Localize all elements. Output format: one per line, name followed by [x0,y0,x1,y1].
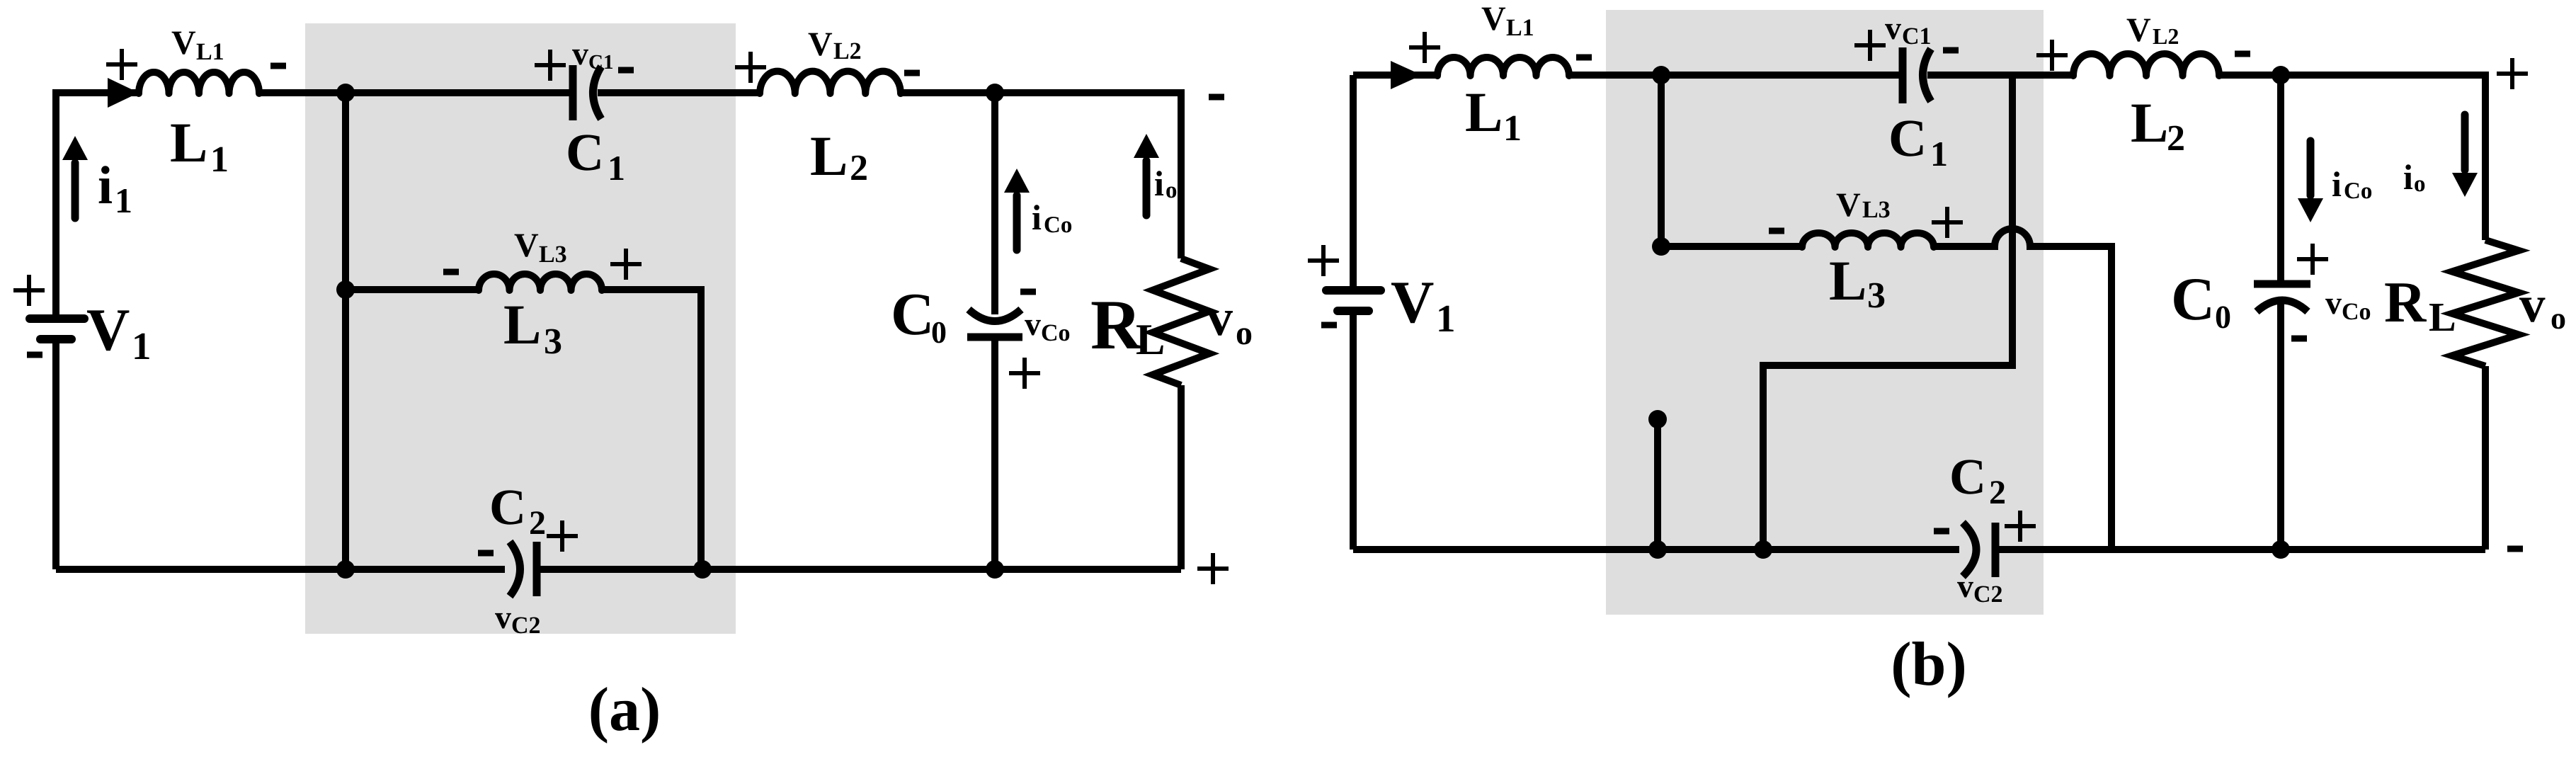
svg-text:v: v [1025,306,1041,342]
svg-text:L: L [810,125,848,188]
svg-text:i: i [98,156,113,215]
svg-text:o: o [1236,314,1253,352]
svg-text:L1: L1 [1506,15,1534,41]
svg-text:V: V [1391,269,1434,336]
svg-text:L3: L3 [539,241,567,268]
svg-text:1: 1 [1503,108,1522,149]
svg-text:C2: C2 [1973,581,2003,608]
svg-text:V: V [1481,0,1506,38]
svg-text:C: C [1888,109,1927,168]
svg-text:i: i [2403,157,2413,197]
svg-text:Co: Co [1041,320,1071,346]
svg-text:C1: C1 [588,51,613,74]
svg-text:(b): (b) [1891,630,1967,699]
svg-text:v: v [1885,10,1901,46]
svg-text:1: 1 [115,181,132,220]
svg-text:L: L [503,294,541,356]
svg-text:1: 1 [608,148,625,188]
svg-text:Co: Co [1044,212,1072,238]
svg-text:2: 2 [1989,474,2006,511]
svg-text:L2: L2 [833,38,862,64]
svg-text:o: o [2551,301,2566,336]
svg-text:L: L [1829,250,1867,312]
svg-text:L3: L3 [1862,197,1891,223]
svg-text:C2: C2 [511,613,541,639]
svg-text:3: 3 [1867,275,1886,316]
svg-text:2: 2 [529,504,546,542]
svg-text:0: 0 [2215,299,2231,335]
svg-text:v: v [2325,285,2342,321]
svg-text:C: C [1949,448,1986,505]
svg-text:1: 1 [1436,297,1456,340]
svg-text:(a): (a) [588,676,661,744]
svg-text:Co: Co [2342,299,2371,325]
svg-text:2: 2 [2167,118,2185,159]
svg-text:v: v [495,599,511,635]
svg-text:C1: C1 [1902,23,1932,50]
svg-text:0: 0 [931,315,947,350]
svg-text:V: V [2126,11,2151,49]
svg-text:1: 1 [1930,134,1948,173]
svg-text:1: 1 [132,324,152,368]
svg-text:V: V [514,227,539,264]
svg-text:C: C [566,123,604,182]
svg-text:V: V [171,24,196,62]
svg-text:L: L [170,112,207,174]
svg-text:V: V [86,297,130,363]
svg-text:L: L [2131,92,2168,154]
svg-text:Co: Co [2344,178,2372,204]
svg-text:C: C [489,479,526,535]
svg-text:i: i [2332,164,2342,204]
svg-text:i: i [1154,164,1164,203]
svg-text:o: o [1166,178,1178,203]
svg-text:R: R [1090,285,1143,364]
svg-text:3: 3 [544,321,562,362]
svg-text:v: v [1207,289,1233,347]
svg-text:C: C [2171,265,2215,333]
svg-text:i: i [1032,198,1042,237]
svg-text:L1: L1 [196,39,224,65]
svg-text:R: R [2384,270,2427,334]
svg-text:1: 1 [210,140,229,180]
svg-text:o: o [2414,171,2426,197]
svg-text:L: L [2429,294,2456,340]
svg-text:v: v [2519,275,2546,333]
svg-text:V: V [808,25,833,63]
svg-text:L2: L2 [2153,23,2179,49]
svg-text:2: 2 [850,148,868,188]
svg-text:V: V [1836,186,1861,224]
svg-text:v: v [572,35,588,72]
svg-text:C: C [891,281,934,348]
svg-text:L: L [1136,316,1165,364]
svg-text:L: L [1465,81,1503,144]
svg-text:v: v [1957,568,1973,604]
